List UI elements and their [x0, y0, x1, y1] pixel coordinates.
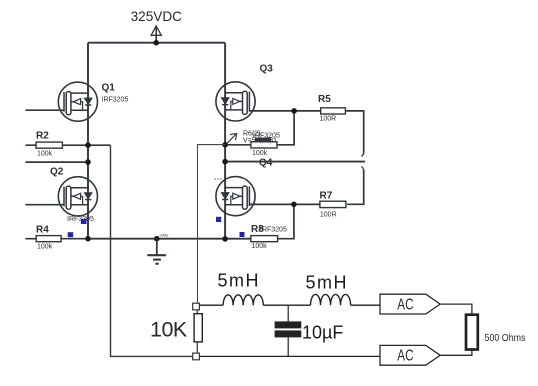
pad marker blue Q4: [216, 217, 221, 222]
wire Q4 gate: [249, 203, 320, 205]
svg-text:R8: R8: [251, 224, 264, 235]
power 325VDC: [131, 9, 183, 43]
wire hop arc hints: [361, 152, 363, 171]
node top bus junction: [153, 40, 159, 46]
svg-text:GND: GND: [160, 233, 169, 238]
pad 10K bottom terminal: [193, 353, 200, 360]
svg-text:AC: AC: [397, 348, 413, 365]
svg-text:IRF3205: IRF3205: [102, 97, 129, 104]
svg-text:500 Ohms: 500 Ohms: [485, 332, 526, 344]
resistor R2: [25, 131, 110, 158]
svg-text:100R: 100R: [320, 115, 337, 122]
svg-text:5mH: 5mH: [306, 272, 349, 292]
wire left column: [87, 43, 89, 239]
wire Q3 gate: [249, 110, 321, 112]
svg-text:100k: 100k: [37, 151, 53, 158]
svg-text:100R: 100R: [320, 212, 337, 219]
resistor R7: [320, 191, 346, 219]
node Q3-gate junction: [291, 108, 297, 114]
source AC1: [380, 294, 440, 314]
wire load to AC2: [440, 350, 472, 356]
svg-text:Q3: Q3: [260, 64, 274, 75]
transistor Q1: [58, 82, 128, 121]
node B upper: [222, 142, 228, 148]
svg-text:Q1: Q1: [102, 83, 116, 94]
resistor 10K: [150, 310, 202, 353]
svg-text:IRF3205: IRF3205: [260, 227, 287, 234]
node B lower: [222, 159, 228, 165]
wire node-A long route down: [111, 145, 194, 356]
wire top bus: [88, 42, 225, 44]
svg-text:10µF: 10µF: [302, 323, 343, 343]
svg-text:R5: R5: [318, 94, 331, 105]
wire AC1 to load: [440, 304, 472, 315]
probe arrow: [226, 131, 277, 145]
wire output-B y162: [225, 161, 365, 163]
pad 10K top terminal: [193, 303, 200, 310]
pad marker blue Q2: [81, 219, 87, 224]
wire node-A input y162: [25, 161, 88, 163]
resistor R6: [225, 111, 294, 157]
svg-text:100k: 100k: [252, 150, 268, 157]
resistor R5: [318, 94, 364, 154]
load resistor 500 Ohms: [466, 315, 526, 350]
inductor L2 5mH: [288, 272, 380, 305]
pad marker blue R8: [240, 232, 245, 237]
wire Q1 gate lead: [25, 109, 64, 111]
svg-text:IRF3205: IRF3205: [67, 216, 94, 223]
svg-text:100k: 100k: [37, 244, 53, 251]
svg-text:AC: AC: [397, 296, 413, 313]
svg-text:Q4: Q4: [259, 158, 273, 169]
resistor R4: [25, 225, 88, 251]
pad marker blue R4: [68, 232, 74, 237]
capacitor 10uF: [275, 305, 344, 356]
dotted mark near Q4: [215, 178, 223, 180]
inductor L1 5mH: [199, 270, 288, 305]
source AC2: [380, 345, 440, 365]
svg-text:R4: R4: [36, 225, 49, 236]
transistor Q3: [216, 64, 280, 140]
node ground junction: [154, 236, 160, 242]
wire right column: [224, 43, 226, 239]
node Q4-gate junction: [291, 202, 297, 208]
node left-bottom: [85, 236, 91, 242]
wire hop lower segment to R7: [347, 170, 364, 205]
svg-text:Q2: Q2: [50, 167, 64, 178]
svg-text:R2: R2: [36, 131, 49, 142]
node A upper: [85, 142, 91, 148]
node A lower: [85, 159, 91, 165]
wire Q2 gate lead: [25, 204, 64, 206]
svg-text:100k: 100k: [252, 243, 268, 250]
svg-text:325VDC: 325VDC: [131, 9, 183, 24]
wire bottom rail: [88, 238, 251, 240]
resistor R8: [251, 204, 294, 250]
wire output-B thin net: [198, 145, 226, 304]
svg-text:10K: 10K: [150, 318, 188, 342]
wire bottom output rail: [199, 355, 380, 357]
svg-text:5mH: 5mH: [218, 270, 261, 290]
ground: [147, 233, 168, 264]
transistor Q4: [216, 158, 287, 234]
node right-bottom: [222, 236, 228, 242]
transistor Q2: [50, 167, 98, 224]
svg-text:R7: R7: [320, 191, 333, 202]
